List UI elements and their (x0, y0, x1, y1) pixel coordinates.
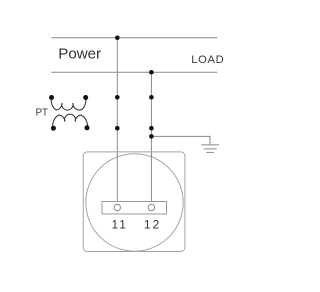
svg-text:PT: PT (36, 108, 48, 119)
svg-text:11: 11 (112, 218, 128, 232)
svg-text:12: 12 (144, 218, 161, 232)
svg-text:Power: Power (58, 46, 101, 63)
svg-text:LOAD: LOAD (191, 54, 224, 66)
